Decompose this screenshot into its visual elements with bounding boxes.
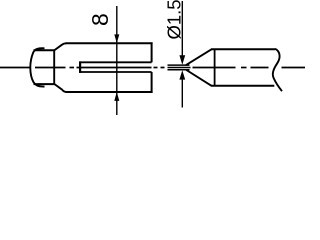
crimp barrel top line	[34, 49, 55, 51]
contact slot top line	[79, 61, 151, 63]
probe tip rod bottom edge	[168, 69, 190, 71]
barrel break S-curve	[273, 49, 282, 91]
svg-text:8: 8	[87, 13, 113, 26]
centerline through terminal: long dash	[35, 67, 66, 69]
cone upper slant	[186, 49, 212, 65]
contact slot closed left end	[79, 61, 81, 73]
crimp barrel bottom line	[34, 83, 55, 85]
dimension line Ø1.5 lower	[181, 77, 183, 108]
terminal body top edge	[66, 42, 153, 44]
probe tip rod centerline	[168, 67, 191, 69]
wire lead centerline (solid, left of break)	[0, 67, 31, 69]
transition top (crimp to body)	[54, 43, 66, 50]
centerline dash right of body	[154, 67, 158, 69]
probe barrel top edge	[211, 48, 275, 50]
break line S-curve (wire break)	[30, 48, 44, 86]
probe tip rod top edge	[168, 64, 190, 66]
dimension arrowhead top (points down at body top edge)	[114, 34, 119, 43]
dimension line for 8 (vertical through body)	[116, 6, 118, 115]
probe barrel bottom edge	[211, 85, 274, 87]
centerline dot	[70, 67, 75, 69]
probe barrel centerline long dash	[193, 67, 236, 69]
centerline short dash left of probe tip	[161, 67, 165, 69]
centerline long dash through slot	[77, 67, 152, 69]
body right edge upper	[151, 42, 153, 62]
centerline short dash	[241, 67, 247, 69]
contact slot bottom line	[79, 71, 151, 73]
cone base ring line	[214, 49, 216, 86]
dimension arrowhead (points up at tip rod)	[179, 70, 185, 79]
crimp barrel right edge	[53, 50, 55, 85]
centerline right of break (solid to edge)	[282, 67, 306, 69]
transition bottom (crimp to body)	[54, 84, 66, 92]
cone lower slant	[186, 70, 212, 86]
terminal body bottom edge	[66, 91, 153, 93]
body right edge lower	[151, 72, 153, 93]
svg-text:Ø1.5: Ø1.5	[163, 0, 184, 40]
dimension line Ø1.5 upper	[181, 1, 183, 58]
dimension arrowhead bottom (points up at body bottom edge)	[114, 92, 119, 101]
dimension arrowhead (points down at tip rod)	[179, 55, 185, 64]
centerline dash before break	[251, 67, 269, 69]
